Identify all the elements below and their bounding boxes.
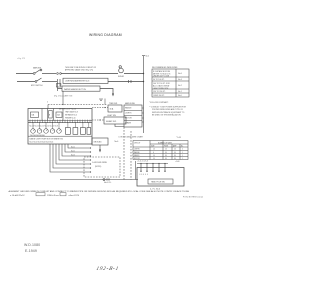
svg-text:AMP: AMP [173, 145, 176, 148]
svg-text:50: 50 [174, 152, 176, 154]
bus junction dots [140, 163, 165, 164]
top compartments [28, 109, 92, 137]
svg-text:OVER 200 FT.: OVER 200 FT. [153, 95, 165, 97]
svg-text:15: 15 [174, 149, 176, 151]
svg-text:150 TO 200 FT.: 150 TO 200 FT. [153, 91, 166, 93]
long verticals [124, 127, 131, 180]
svg-text:No.12: No.12 [71, 146, 75, 148]
dashed enclosure [84, 157, 120, 177]
svg-text:RECOMMENDED WIRE SIZES: RECOMMENDED WIRE SIZES [152, 67, 178, 69]
svg-text:TRAY CABLE No.8: TRAY CABLE No.8 [65, 111, 78, 114]
svg-text:30: 30 [165, 158, 167, 160]
svg-text:60A: 60A [32, 113, 35, 116]
svg-text:a 16-d48 Ple52: a 16-d48 Ple52 [10, 195, 25, 197]
svg-text:No.0: No.0 [178, 95, 182, 97]
svg-text:1: 1 [182, 152, 183, 154]
svg-text:LIGHTS: LIGHTS [134, 149, 140, 151]
panel ticks to feeder [142, 108, 144, 122]
svg-text:RANGE: RANGE [125, 107, 132, 110]
main vertical feeder [143, 56, 145, 133]
svg-text:15: 15 [165, 149, 167, 151]
svg-text:14: 14 [153, 149, 155, 151]
svg-text:AUGMENT GROUND WIRE IN CONDUIT: AUGMENT GROUND WIRE IN CONDUIT AND CONNE… [9, 190, 190, 193]
svg-text:E-1949: E-1949 [25, 249, 37, 253]
svg-text:1: 1 [182, 158, 183, 160]
svg-text:APPROVED CABLE ONLY (Fig. 575: APPROVED CABLE ONLY (Fig. 575) [65, 68, 93, 71]
drop wires to meters [33, 122, 89, 129]
wire line C [58, 88, 63, 90]
ground label box [92, 138, 108, 145]
svg-text:c Fig. 573: c Fig. 573 [17, 58, 25, 60]
svg-text:LIGHTS: LIGHTS [125, 113, 132, 115]
svg-text:WIRING DIAGRAM: WIRING DIAGRAM [89, 33, 122, 37]
socket terminals [140, 171, 165, 172]
svg-text:SIZE: SIZE [151, 146, 154, 148]
footnote double star [149, 107, 187, 117]
junction node [104, 107, 105, 108]
meter M1 [119, 68, 124, 73]
svg-text:FEEDER No.10: FEEDER No.10 [65, 118, 76, 120]
svg-text:MOTOR: MOTOR [134, 158, 141, 160]
tray switch box [108, 105, 122, 112]
svg-text:No.6: No.6 [115, 141, 119, 143]
svg-text:UNDER 50 FT. USE: UNDER 50 FT. USE [153, 76, 170, 78]
svg-text:KW.HR: KW.HR [118, 76, 125, 78]
wire [42, 81, 57, 83]
svg-text:No.4: No.4 [146, 56, 149, 58]
svg-text:RANGE LIGHT PUMP MOTOR SPARE H: RANGE LIGHT PUMP MOTOR SPARE H.W. [30, 137, 64, 140]
svg-text:* 1-63: * 1-63 [176, 137, 181, 139]
meter labels [30, 126, 64, 144]
meter board box [28, 109, 92, 145]
svg-text:No.2: No.2 [178, 85, 182, 87]
svg-text:RANGE: RANGE [134, 151, 140, 154]
svg-text:BE USED ON THIS INSTALLATION: BE USED ON THIS INSTALLATION [152, 113, 181, 116]
wire heater to bus [62, 91, 64, 104]
svg-text:WATER HEATER BUTTON: WATER HEATER BUTTON [64, 88, 86, 91]
svg-text:SERVICE ENTRANCE EQUIPMENT TO: SERVICE ENTRANCE EQUIPMENT TO [152, 111, 185, 114]
clamp ticks [129, 80, 132, 83]
wire line B [17, 81, 35, 83]
svg-text:2: 2 [182, 149, 183, 151]
svg-text:FUSE: FUSE [164, 146, 168, 148]
svg-text:6: 6 [153, 152, 154, 154]
ladder ticks [58, 79, 61, 91]
wire to ground [100, 89, 113, 95]
svg-text:30A: 30A [57, 113, 60, 116]
svg-text:30 A.: 30 A. [110, 108, 115, 111]
socket stubs [141, 164, 165, 171]
svg-text:(Fig. 574) 40 AMP. SW.: (Fig. 574) 40 AMP. SW. [54, 95, 73, 98]
ground arrow [112, 94, 114, 97]
top bus [137, 163, 168, 165]
svg-text:30: 30 [165, 155, 167, 157]
table2 [133, 141, 188, 160]
wire line A [16, 73, 33, 75]
svg-text:(NOTE): (NOTE) [95, 166, 102, 168]
svg-text:ENTRANCE No.6: ENTRANCE No.6 [65, 114, 77, 117]
svg-text:NUMBER OF WIRE: NUMBER OF WIRE [158, 142, 172, 144]
switch S1 [33, 73, 35, 75]
svg-text:GROUND: GROUND [94, 142, 103, 144]
svg-text:TRAY SW.: TRAY SW. [109, 102, 118, 105]
wire board to light switch [92, 119, 104, 121]
svg-text:6 6 6 6 6: 6 6 6 6 6 [140, 174, 149, 176]
svg-text:YARD POLE SW.: YARD POLE SW. [151, 181, 165, 184]
svg-text:30: 30 [174, 158, 176, 160]
bus end connector [103, 179, 105, 181]
svg-text:10: 10 [153, 155, 155, 157]
svg-text:30: 30 [174, 155, 176, 157]
svg-text:15A 15A 20A 20A 30A: 15A 15A 20A 20A 30A [30, 134, 45, 137]
svg-text:LEAST WIRE SIZE: LEAST WIRE SIZE [153, 87, 169, 90]
wire board to tray switch [92, 107, 108, 109]
dashed distribution wire [48, 104, 107, 106]
harness drops [50, 144, 90, 172]
switch S2 [35, 81, 37, 83]
meters row [31, 128, 91, 135]
svg-text:W.D.1080: W.D.1080 [24, 243, 40, 247]
svg-text:+1-63: +1-63 [175, 161, 179, 163]
harness terminals [90, 147, 91, 172]
harness wire labels [71, 146, 75, 156]
svg-text:No.14: No.14 [71, 154, 75, 156]
svg-text:PROPER WIRE SIZES AND TYPE OF: PROPER WIRE SIZES AND TYPE OF [152, 108, 184, 111]
junction node [99, 119, 100, 120]
main panel box [124, 105, 142, 127]
svg-text:60 AMP. SW.: 60 AMP. SW. [106, 120, 117, 123]
svg-text:LIGHTNING ARRESTER No.8: LIGHTNING ARRESTER No.8 [65, 80, 89, 83]
svg-text:+2 +4 +6 +8 +6: +2 +4 +6 +8 +6 [137, 161, 148, 163]
svg-text:MAIN SW.: MAIN SW. [33, 67, 42, 70]
heater button box [62, 86, 100, 91]
svg-text:WATER: WATER [134, 154, 140, 157]
svg-text:1-GROUND WIRE: 1-GROUND WIRE [92, 162, 108, 164]
svg-text:No.6: No.6 [178, 73, 182, 75]
svg-text:No.12: No.12 [71, 150, 75, 152]
bottom bus [60, 179, 138, 181]
svg-text:No.1: No.1 [178, 91, 182, 93]
outbuilding box [137, 168, 184, 187]
compartment value labels [32, 111, 78, 120]
svg-text:1: 1 [182, 155, 183, 157]
svg-text:1990-t-Ruse: 1990-t-Ruse [47, 194, 60, 197]
svg-text:No.1 No.2 No.3 No.4 No: No.1 No.2 No.3 No.4 No.5 No.6 [30, 141, 54, 143]
arrester box [63, 78, 108, 83]
svg-text:No.14 No.12 No.12 No.14 No: No.14 No.12 No.12 No.14 No.10 No.8 [30, 126, 59, 128]
svg-text:No.4: No.4 [178, 79, 182, 81]
svg-text:* FOLLOW CONTRACT.: * FOLLOW CONTRACT. [149, 101, 169, 104]
svg-text:b: b [47, 102, 48, 104]
wire [62, 73, 119, 75]
svg-text:No.6 CU.: No.6 CU. [104, 182, 112, 184]
handwritten plate number [96, 266, 120, 272]
ground mark [99, 99, 103, 100]
svg-text:effect 8170: effect 8170 [69, 194, 80, 197]
meter needles [33, 129, 60, 131]
wire [108, 81, 144, 83]
svg-text:LOW VOLTAGE WIRE CHART: LOW VOLTAGE WIRE CHART [119, 136, 145, 139]
wire below panel [115, 124, 124, 127]
svg-text:10: 10 [153, 158, 155, 160]
table1 [152, 69, 189, 97]
wire [124, 73, 144, 75]
svg-text:50 TO 100 FT.: 50 TO 100 FT. [153, 79, 165, 81]
wire [42, 73, 56, 75]
svg-text:ENT. SWITCH: ENT. SWITCH [31, 85, 43, 87]
ground arrow 2 [99, 145, 101, 150]
svg-text:M: M [49, 114, 51, 116]
inner label [148, 179, 173, 184]
svg-text:CIRCUIT: CIRCUIT [134, 143, 140, 145]
svg-text:50: 50 [165, 152, 167, 154]
svg-text:MAIN FUSE: MAIN FUSE [125, 102, 136, 105]
svg-text:192-B-1: 192-B-1 [96, 266, 120, 272]
connector dots [57, 73, 59, 75]
bus bars [28, 121, 92, 123]
svg-text:Fr EL NOTES hereon: Fr EL NOTES hereon [183, 196, 203, 199]
